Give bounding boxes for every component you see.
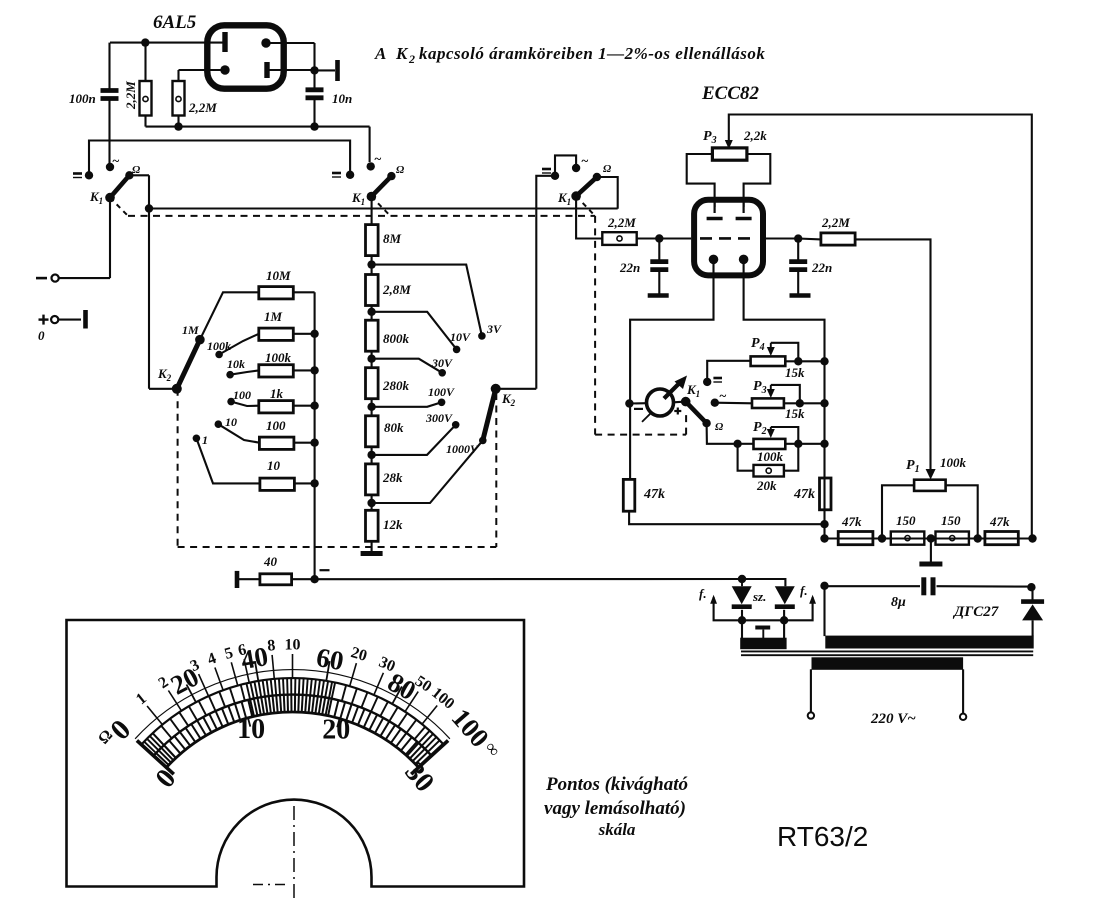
svg-text:10V: 10V [450, 330, 471, 344]
node [878, 534, 886, 542]
svg-text:100V: 100V [428, 385, 455, 399]
resistor 100 [259, 437, 314, 449]
resistor 80k [366, 416, 379, 447]
svg-text:RT63/2: RT63/2 [777, 821, 868, 852]
tube ECC82 envelope [694, 200, 763, 276]
wire output row [825, 537, 1033, 539]
label 3V [486, 322, 502, 336]
tube 6AL5 envelope [207, 25, 283, 88]
svg-text:1000V: 1000V [446, 442, 479, 456]
wire [371, 496, 373, 511]
terminal 220V right [960, 714, 966, 720]
node [796, 399, 804, 407]
switch K1a contact ~ dot [106, 163, 114, 171]
resistor 1k [259, 401, 315, 413]
wire [674, 401, 686, 404]
switch K1d contact ~ dot [711, 388, 727, 407]
label P2 [753, 420, 767, 437]
label 10V [450, 330, 471, 344]
meter M [629, 376, 687, 422]
resistor 2,2M plate [821, 233, 855, 245]
wire [882, 485, 914, 538]
label 40 [263, 554, 278, 569]
label f right [800, 583, 808, 598]
svg-text:20k: 20k [756, 478, 777, 493]
label 100k [940, 455, 967, 470]
wire [937, 585, 1032, 587]
svg-text:220 V~: 220 V~ [870, 711, 916, 727]
label 80k [384, 420, 404, 435]
label K2 [157, 366, 172, 383]
wire [369, 127, 371, 162]
svg-text:80k: 80k [384, 420, 404, 435]
title RT63/2 [777, 821, 868, 852]
svg-text:A: A [374, 44, 386, 63]
node [367, 499, 375, 507]
node [738, 616, 746, 624]
capacitor 100n [101, 43, 119, 167]
wire anode supply [729, 115, 1032, 539]
label 2,2M [188, 100, 217, 115]
wire [371, 542, 373, 551]
tube ECC82 label [701, 83, 760, 104]
wire bank bus [314, 292, 316, 579]
wire [687, 154, 715, 207]
svg-text:1M: 1M [182, 323, 199, 337]
label 22n [619, 260, 640, 275]
transformer center tap [755, 628, 770, 639]
node [820, 534, 828, 542]
svg-text:1k: 1k [270, 386, 284, 401]
svg-text:28k: 28k [382, 470, 403, 485]
label 220V [870, 711, 916, 727]
label 47k [989, 514, 1010, 529]
label 100 contact [233, 388, 251, 402]
svg-text:3V: 3V [486, 322, 502, 336]
resistor 47k bus [820, 478, 832, 510]
label K1 [351, 190, 365, 207]
svg-text:K: K [395, 44, 409, 63]
node [310, 402, 318, 410]
wire tap 100V [372, 402, 442, 407]
switch K2a arm [177, 335, 205, 389]
contact 10V [453, 346, 461, 354]
label 100k [265, 350, 292, 365]
node [174, 122, 182, 130]
label 100n [69, 91, 96, 106]
node [655, 234, 663, 242]
resistor 1M [259, 328, 315, 340]
dashed gang link [576, 196, 595, 435]
node [367, 355, 375, 363]
transformer filament winding [741, 638, 786, 649]
capacitor 10n [306, 70, 324, 126]
resistor 20k [754, 465, 784, 477]
wire [742, 620, 784, 638]
svg-text:150: 150 [896, 513, 916, 528]
svg-text:1: 1 [202, 433, 208, 447]
label 10 contact [225, 415, 237, 429]
node [367, 260, 375, 268]
contact 100k [215, 334, 258, 359]
svg-text:2,8M: 2,8M [382, 282, 411, 297]
resistor 47k meter [623, 479, 635, 511]
dashed gang link [371, 197, 390, 216]
wire [267, 69, 315, 71]
label 10k contact [227, 357, 245, 371]
wire [738, 443, 754, 445]
node [794, 234, 802, 242]
wire tap 30V [372, 359, 443, 373]
svg-text:40: 40 [263, 554, 278, 569]
svg-text:~: ~ [374, 151, 382, 166]
svg-text:100k: 100k [265, 350, 292, 365]
svg-text:280k: 280k [382, 378, 410, 393]
resistor 40 [260, 574, 315, 585]
label 150 [941, 513, 961, 528]
resistor 47k out-left [838, 532, 873, 545]
svg-text:47k: 47k [989, 514, 1010, 529]
switch K1a contact Ω dot [125, 171, 133, 179]
wire dc-contact link [89, 141, 350, 176]
switch K1c ~ symbol [581, 153, 589, 168]
svg-text:8M: 8M [383, 231, 402, 246]
pot P1 wiper arrow [926, 469, 936, 480]
svg-text:Ω: Ω [132, 164, 141, 176]
switch K1b Ω symbol [396, 164, 405, 176]
node [820, 399, 828, 407]
wire [371, 306, 373, 320]
svg-text:8: 8 [267, 637, 276, 655]
label P3 [753, 379, 767, 396]
label 28k [382, 470, 403, 485]
svg-text:10M: 10M [266, 268, 291, 283]
label 12k [383, 517, 403, 532]
wire cathode left [630, 259, 713, 403]
switch K1b contact = dot [346, 171, 354, 179]
resistor 2,2M first [140, 43, 152, 127]
wire [496, 388, 537, 390]
potentiometer P4 15k [751, 356, 786, 366]
wire cathode return bus [146, 126, 370, 128]
wire cathode right [744, 259, 825, 538]
resistor 10M [259, 287, 315, 299]
label 2,2M vertical [123, 81, 138, 110]
svg-text:~: ~ [112, 153, 120, 168]
resistor 2,8M [366, 275, 379, 306]
wire primary left [810, 669, 812, 712]
svg-text:2,2M: 2,2M [123, 81, 138, 110]
wire minus rail [315, 578, 742, 580]
svg-text:47k: 47k [793, 487, 815, 502]
svg-text:vagy lemásolható): vagy lemásolható) [544, 798, 686, 819]
svg-text:12k: 12k [383, 517, 403, 532]
label 100V [428, 385, 455, 399]
node [145, 204, 153, 212]
svg-text:10: 10 [267, 458, 281, 473]
label 15k [785, 365, 805, 380]
node [974, 534, 982, 542]
switch K1b contact ~ dot [367, 162, 375, 170]
tube 6AL5 label [153, 12, 197, 33]
wire [371, 352, 373, 368]
label 8μ [891, 595, 906, 610]
wire [597, 177, 618, 209]
contact 30V [438, 369, 446, 377]
terminal bar [315, 60, 338, 81]
resistor 12k [366, 510, 379, 541]
label 2,2k [743, 128, 767, 143]
wire [742, 610, 784, 621]
label K1 [686, 382, 700, 399]
svg-text:f.: f. [800, 583, 808, 598]
wire tap 10V [372, 312, 457, 350]
dashed gang link [495, 393, 497, 547]
svg-text:Ω: Ω [715, 421, 724, 433]
node [820, 520, 828, 528]
wire [536, 176, 555, 389]
svg-text:10k: 10k [227, 357, 245, 371]
node [310, 66, 318, 74]
svg-text:100n: 100n [69, 91, 96, 106]
wire [742, 619, 784, 621]
svg-text:kapcsoló áramköreiben 1—2%-os: kapcsoló áramköreiben 1—2%-os ellenállás… [419, 44, 765, 63]
svg-text:2,2k: 2,2k [743, 128, 767, 143]
tube ECC82 cathode right [739, 255, 749, 265]
switch K1c contact = symbol [542, 169, 551, 173]
node [927, 534, 935, 542]
wire ac-dc bridge [555, 155, 576, 175]
wire [855, 239, 930, 470]
label 22n [811, 260, 832, 275]
label 1000V [446, 442, 479, 456]
potentiometer P3 15k [752, 398, 784, 408]
ground [790, 293, 811, 298]
wire tap 3V [372, 265, 482, 336]
capacitor 8μ [924, 577, 933, 595]
node [780, 616, 788, 624]
node [1028, 534, 1036, 542]
diode sz right [742, 579, 795, 607]
label 1 contact [202, 433, 208, 447]
resistor 10 [260, 478, 315, 490]
svg-text:150: 150 [941, 513, 961, 528]
switch K1a Ω symbol [132, 164, 141, 176]
switch K2a pivot [172, 384, 182, 394]
wire [785, 360, 824, 362]
wire [1032, 620, 1034, 636]
resistor 800k [366, 320, 379, 351]
label 100 [266, 418, 286, 433]
capacitor 22n right [789, 239, 807, 294]
tube 6AL5 pin dot right-top [261, 38, 270, 47]
contact 100 [227, 398, 258, 406]
note text [544, 774, 688, 839]
dashed gang link K2 [178, 389, 497, 547]
label 10n [332, 91, 352, 106]
potentiometer P3 anode 2,2k [712, 148, 747, 160]
contact 1000V [479, 437, 487, 445]
dashed probe box [595, 412, 686, 435]
node [820, 357, 828, 365]
switch K1a contact = symbol [73, 174, 82, 178]
wire [744, 154, 771, 207]
label 100k contact [207, 339, 231, 353]
label 10 [267, 458, 281, 473]
label 10M [266, 268, 291, 283]
potentiometer P1 100k [914, 480, 946, 491]
label 2,8M [382, 282, 411, 297]
tube ECC82 anode left [707, 201, 723, 219]
svg-text:100k: 100k [757, 449, 784, 464]
node [310, 122, 318, 130]
label 300V [425, 411, 453, 425]
wire f left [710, 595, 742, 621]
dashed gang link K1 [110, 198, 595, 216]
svg-text:2: 2 [408, 52, 415, 66]
label 47k [643, 487, 665, 502]
wire [707, 361, 750, 382]
svg-text:10n: 10n [332, 91, 352, 106]
svg-text:100: 100 [233, 388, 251, 402]
transformer hv winding [826, 636, 1033, 648]
label 1M contact [182, 323, 199, 337]
svg-text:sz.: sz. [752, 589, 766, 604]
svg-text:100k: 100k [207, 339, 231, 353]
svg-text:22n: 22n [619, 260, 640, 275]
node [310, 330, 318, 338]
wire to minus terminal [57, 198, 110, 279]
wire [707, 423, 738, 444]
wire [629, 511, 824, 524]
label sz [752, 589, 766, 604]
label f left [699, 586, 707, 601]
wire [784, 444, 798, 471]
label 150 [896, 513, 916, 528]
contact 1 [193, 435, 260, 484]
label K2 [501, 391, 516, 408]
node [1027, 583, 1035, 591]
switch K1c Ω symbol [603, 163, 612, 175]
svg-text:15k: 15k [785, 365, 805, 380]
svg-text:30V: 30V [431, 356, 453, 370]
switch K1d arm [681, 397, 707, 423]
svg-text:~: ~ [719, 388, 727, 403]
diode ДГС27 [1021, 587, 1044, 620]
label 1k [270, 386, 284, 401]
switch K1c contact ~ dot [572, 164, 580, 172]
capacitor 22n left [650, 239, 668, 294]
switch K1d contact Ω dot [702, 419, 724, 433]
switch K1b arm [367, 176, 392, 201]
contact 300V [452, 421, 460, 429]
ground [919, 562, 942, 567]
ground [648, 293, 669, 298]
node [820, 440, 828, 448]
node [794, 440, 802, 448]
tube 6AL5 pin dot left-bottom [220, 65, 229, 74]
resistor 150 right [936, 532, 969, 545]
switch K1b contact = symbol [332, 173, 341, 177]
node [367, 451, 375, 459]
wire [766, 237, 821, 240]
pot P4 wiper [767, 343, 799, 362]
wire [930, 539, 932, 563]
svg-text:ECC82: ECC82 [701, 83, 760, 104]
node [820, 582, 828, 590]
label P4 [751, 336, 765, 353]
wire [823, 586, 825, 636]
switch K1c contact = dot [551, 172, 559, 180]
terminal plus-zero [38, 310, 86, 343]
wire f right [784, 595, 816, 621]
node [310, 439, 318, 447]
svg-text:f.: f. [699, 586, 707, 601]
svg-text:47k: 47k [643, 487, 665, 502]
node [310, 575, 318, 583]
pot P3 wiper [767, 385, 800, 403]
label ДГС27 [952, 604, 999, 620]
svg-text:0: 0 [38, 328, 45, 343]
svg-text:10: 10 [285, 637, 301, 654]
wire [637, 237, 692, 239]
label minus [320, 569, 330, 571]
wire [371, 447, 373, 464]
resistor 8M [366, 225, 379, 256]
label P1 [906, 458, 920, 475]
node top bus junction [141, 38, 149, 46]
label 15k [785, 406, 805, 421]
pot P2 wiper [767, 427, 799, 444]
svg-text:Ω: Ω [603, 163, 612, 175]
transformer primary winding [812, 658, 963, 670]
tube 6AL5 pin plate right [264, 62, 269, 78]
wire [629, 404, 631, 480]
resistor 280k [366, 368, 379, 399]
ground [361, 551, 383, 556]
svg-text:100: 100 [266, 418, 286, 433]
switch K1a ~ symbol [112, 153, 120, 168]
label 800k [383, 331, 410, 346]
switch K1d contact = dot [703, 378, 722, 386]
switch K1a contact = dot [85, 171, 93, 179]
switch K1c arm [571, 177, 597, 201]
label 280k [382, 378, 410, 393]
label K1 [557, 190, 571, 207]
svg-text:2,2M: 2,2M [821, 215, 850, 230]
svg-text:8μ: 8μ [891, 595, 906, 610]
svg-text:2,2M: 2,2M [607, 215, 636, 230]
svg-text:100k: 100k [940, 455, 967, 470]
node [367, 308, 375, 316]
label 2,2M [607, 215, 636, 230]
svg-text:300V: 300V [425, 411, 453, 425]
svg-text:6AL5: 6AL5 [153, 12, 197, 33]
switch K1b ~ symbol [374, 151, 382, 166]
svg-text:Ω: Ω [396, 164, 405, 176]
wire [576, 196, 602, 238]
svg-text:ДГС27: ДГС27 [952, 604, 999, 620]
svg-text:Pontos (kivágható: Pontos (kivágható [545, 774, 688, 795]
contact 100V [438, 399, 446, 407]
svg-text:10: 10 [237, 714, 265, 745]
wire K1 bus [149, 207, 618, 209]
svg-text:15k: 15k [785, 406, 805, 421]
svg-text:60: 60 [314, 642, 346, 676]
switch K1b contact Ω dot [387, 172, 395, 180]
terminal minus [36, 275, 59, 282]
wire [784, 402, 825, 404]
